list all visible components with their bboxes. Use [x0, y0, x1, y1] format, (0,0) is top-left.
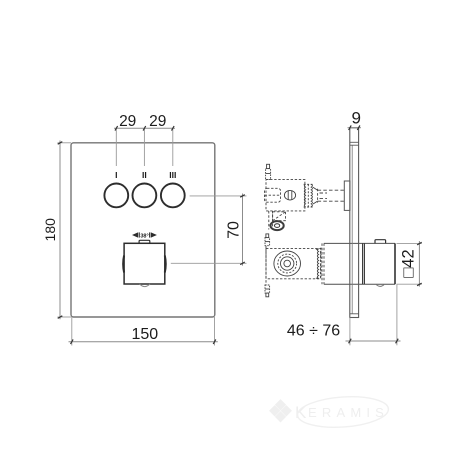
watermark ellipse swoosh	[297, 394, 390, 430]
svg-text:ERAMIS: ERAMIS	[308, 405, 389, 420]
plate inner face line	[351, 145, 353, 314]
svg-text:I: I	[115, 170, 117, 180]
lower box through wall (solid)	[324, 243, 395, 284]
lower wall bracket vertical	[265, 234, 270, 297]
plate bottom seam	[350, 313, 359, 315]
side button bottom arc	[376, 284, 385, 286]
dim ticks	[115, 126, 174, 131]
dim 42: extension lines	[397, 242, 422, 244]
dim 70: extension line from knob III	[190, 195, 247, 197]
upper thread zone	[304, 184, 313, 207]
upper bracket nut (dark ellipse)	[271, 221, 284, 230]
button right grip bump	[164, 256, 167, 273]
svg-text:9: 9	[351, 108, 360, 127]
lower thread zone	[316, 248, 321, 279]
button top tab	[139, 240, 150, 243]
svg-text:III: III	[169, 170, 176, 180]
svg-text:II: II	[142, 170, 147, 180]
button bottom arc	[140, 284, 150, 287]
svg-text:□42: □42	[399, 249, 417, 277]
wall plate side view	[350, 128, 359, 318]
dim 150: extension lines down from plate corners	[71, 317, 73, 346]
svg-text:180: 180	[42, 218, 58, 242]
svg-text:150: 150	[131, 326, 158, 343]
upper valve body (dashed, behind wall)	[265, 180, 305, 211]
watermark logo diamonds	[269, 399, 292, 422]
knob circle I	[104, 184, 128, 208]
lower valve circles	[274, 251, 301, 276]
upper valve ellipse detail	[284, 190, 295, 200]
dim 42: dimension line	[418, 241, 420, 287]
svg-text:38°: 38°	[140, 233, 148, 239]
upper taper neck	[313, 187, 318, 204]
38-degree marking: left arrow	[132, 232, 138, 237]
dim 46-76: dimension line	[346, 340, 401, 342]
button left grip bump	[122, 256, 125, 273]
lower valve body (dashed)	[266, 248, 321, 278]
svg-text:46 ÷ 76: 46 ÷ 76	[287, 323, 340, 340]
front plate	[71, 143, 215, 317]
button box in front of plate: double vertical	[362, 243, 364, 284]
side button top tab	[375, 240, 386, 244]
upper mounting bracket below body	[269, 211, 286, 230]
knob circle II	[133, 184, 157, 208]
plate top seam	[350, 141, 359, 143]
dim 150: dimension line	[69, 341, 218, 343]
dim 180: dimension line	[59, 141, 61, 320]
dim 46-76: extension lines	[349, 318, 351, 346]
38-degree marking: right arrow	[151, 232, 157, 237]
dim 180: extension lines	[58, 142, 72, 144]
lower sliding sleeve dashed verticals	[322, 243, 324, 284]
dim 70: dimension line	[242, 194, 244, 266]
knob circle III	[161, 184, 185, 208]
dim 29/29: dimension line	[114, 127, 175, 129]
lower box right edge	[394, 243, 396, 284]
svg-text:70: 70	[225, 221, 242, 239]
svg-text:29: 29	[149, 113, 166, 130]
upper boss at plate	[344, 181, 350, 210]
svg-text:29: 29	[119, 113, 136, 130]
upper stem (dashed)	[318, 190, 345, 201]
upper top screw	[266, 164, 271, 179]
dim 70: extension line from button	[171, 262, 247, 264]
dim 29/29: extension lines down to knobs	[115, 128, 117, 166]
square button	[124, 243, 165, 284]
